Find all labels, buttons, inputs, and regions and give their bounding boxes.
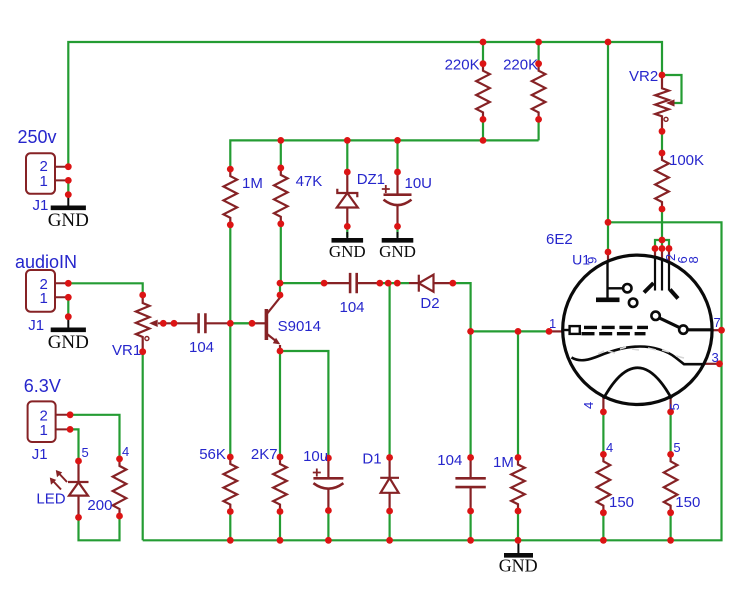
svg-text:150: 150 (609, 494, 634, 511)
svg-text:audioIN: audioIN (15, 252, 77, 272)
svg-text:2K7: 2K7 (251, 446, 278, 463)
svg-text:GND: GND (329, 242, 366, 261)
svg-text:6.3V: 6.3V (24, 376, 61, 396)
svg-text:8: 8 (686, 256, 701, 263)
svg-text:D1: D1 (362, 451, 381, 468)
svg-text:LED: LED (36, 491, 65, 508)
svg-text:5: 5 (82, 445, 89, 460)
svg-text:1: 1 (40, 290, 48, 307)
svg-text:1M: 1M (493, 454, 514, 471)
svg-text:1: 1 (40, 173, 48, 190)
svg-text:200: 200 (87, 497, 112, 514)
svg-text:10u: 10u (303, 448, 328, 465)
svg-text:150: 150 (675, 494, 700, 511)
svg-text:4: 4 (122, 444, 129, 459)
svg-text:5: 5 (673, 440, 680, 455)
svg-text:5: 5 (667, 403, 682, 410)
svg-text:4: 4 (581, 402, 596, 409)
svg-text:VR1: VR1 (112, 342, 141, 359)
svg-text:220K: 220K (445, 57, 480, 74)
svg-text:7: 7 (714, 315, 721, 330)
svg-text:1: 1 (549, 316, 556, 331)
svg-text:47K: 47K (296, 173, 323, 190)
svg-text:DZ1: DZ1 (357, 171, 385, 188)
svg-text:J1: J1 (32, 446, 48, 463)
svg-text:J1: J1 (33, 197, 49, 214)
svg-text:220K: 220K (503, 57, 538, 74)
svg-text:VR2: VR2 (629, 68, 658, 85)
svg-text:9: 9 (585, 257, 600, 264)
svg-text:100K: 100K (669, 152, 704, 169)
svg-text:250v: 250v (18, 127, 57, 147)
svg-text:56K: 56K (199, 446, 226, 463)
svg-text:S9014: S9014 (278, 318, 321, 335)
svg-text:10U: 10U (405, 175, 433, 192)
svg-text:6E2: 6E2 (546, 231, 573, 248)
svg-text:4: 4 (606, 440, 613, 455)
svg-text:GND: GND (48, 332, 89, 353)
svg-text:GND: GND (379, 242, 416, 261)
svg-text:104: 104 (437, 452, 462, 469)
svg-text:104: 104 (189, 339, 214, 356)
svg-text:GND: GND (48, 210, 89, 231)
svg-text:GND: GND (499, 556, 538, 576)
svg-text:3: 3 (712, 350, 719, 365)
svg-text:104: 104 (340, 299, 365, 316)
svg-text:J1: J1 (28, 317, 44, 334)
svg-text:1: 1 (40, 422, 48, 439)
svg-text:1M: 1M (242, 175, 263, 192)
svg-text:D2: D2 (420, 295, 439, 312)
